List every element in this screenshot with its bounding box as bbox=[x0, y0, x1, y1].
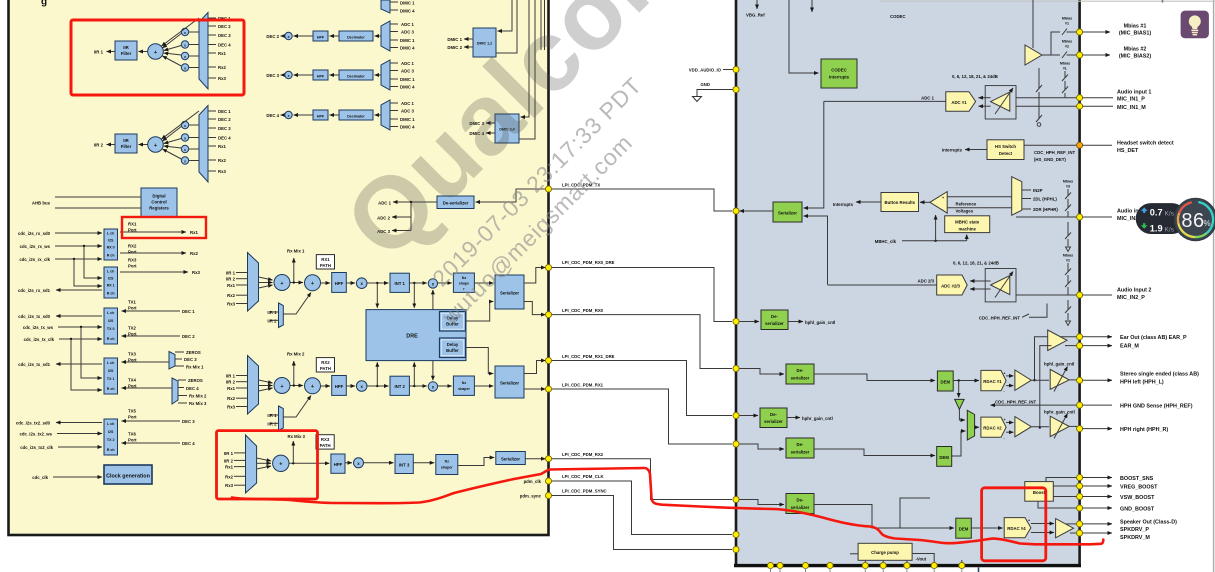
RX3 PATH tag bbox=[316, 435, 334, 449]
upload arrow icon bbox=[1141, 207, 1148, 213]
svg-text:DEC 4: DEC 4 bbox=[218, 43, 231, 48]
svg-text:Charge pump: Charge pump bbox=[871, 550, 899, 555]
svg-text:HPF: HPF bbox=[317, 35, 325, 39]
svg-text:TX3: TX3 bbox=[128, 352, 136, 357]
I2S TX2 block bbox=[104, 419, 118, 455]
wires multipliers to adder IIR1 bbox=[162, 18, 200, 66]
de-serializer hphl2 bbox=[786, 364, 814, 384]
wire LPI_CDC_PDM_RX1 bbox=[549, 389, 733, 444]
Digital Control Registers block bbox=[141, 188, 177, 217]
svg-text:IN2P: IN2P bbox=[1033, 188, 1043, 193]
svg-text:Speaker Out (Class-D): Speaker Out (Class-D) bbox=[1120, 519, 1177, 525]
svg-text:RX1: RX1 bbox=[128, 222, 137, 227]
wires RDAC1 to amp bbox=[1006, 376, 1013, 386]
mux IIR2 bbox=[199, 106, 208, 183]
svg-text:HPF: HPF bbox=[317, 74, 325, 78]
mic amp 2 enclosure bbox=[985, 269, 1016, 302]
svg-text:DEC 4: DEC 4 bbox=[218, 136, 231, 141]
svg-text:2DR (HPHR): 2DR (HPHR) bbox=[1033, 207, 1058, 212]
Mbias #2 external bbox=[1082, 54, 1110, 56]
wire to ADC2 bbox=[392, 216, 411, 218]
RxMix1 adder bbox=[274, 275, 290, 291]
svg-text:#2: #2 bbox=[1065, 45, 1069, 49]
DMIC 1,2 top wires bbox=[498, 0, 513, 31]
RxMix3 mux input labels bbox=[224, 451, 234, 488]
wire hphl amp out bbox=[1031, 379, 1049, 381]
svg-text:Control: Control bbox=[151, 200, 166, 205]
svg-text:shaper: shaper bbox=[458, 387, 470, 391]
svg-text:Rx Mix 1: Rx Mix 1 bbox=[287, 249, 305, 254]
svg-text:Mbias #2: Mbias #2 bbox=[1124, 47, 1147, 53]
bottom edge nodes bbox=[767, 562, 964, 568]
svg-text:Rx3: Rx3 bbox=[227, 405, 235, 410]
node HS_DET bbox=[1077, 142, 1083, 148]
svg-text:Decimator: Decimator bbox=[347, 114, 365, 118]
svg-text:PATH: PATH bbox=[320, 443, 331, 448]
wire node to de-serializer hphr bbox=[740, 415, 759, 417]
svg-text:TX 0: TX 0 bbox=[107, 327, 115, 331]
svg-text:Rx2: Rx2 bbox=[190, 251, 198, 256]
ADC #2/3 block bbox=[937, 275, 968, 295]
svg-text:Filter: Filter bbox=[121, 51, 132, 56]
wire DEC4 to TX6 port bbox=[122, 442, 181, 444]
svg-text:Port: Port bbox=[128, 264, 137, 269]
svg-text:DEC 2: DEC 2 bbox=[218, 117, 231, 122]
CODEC Interrupts block bbox=[821, 59, 857, 88]
sense switch column bbox=[1036, 68, 1042, 122]
svg-text:CDC_HPH_REF_INT: CDC_HPH_REF_INT bbox=[979, 315, 1020, 320]
svg-text:RX 0: RX 0 bbox=[107, 246, 115, 250]
svg-text:DEM: DEM bbox=[941, 380, 951, 385]
svg-text:#1: #1 bbox=[1065, 22, 1069, 26]
svg-text:Voltages: Voltages bbox=[956, 209, 974, 214]
serializer (codec) bbox=[773, 202, 802, 222]
svg-text:ADC 1: ADC 1 bbox=[401, 61, 415, 66]
svg-text:VREG_BOOST: VREG_BOOST bbox=[1120, 485, 1158, 491]
svg-text:Decimator: Decimator bbox=[347, 35, 365, 39]
RX1 DRE taps bbox=[377, 283, 433, 310]
AHB bus wires bbox=[55, 197, 141, 208]
RxMix2 adder bbox=[274, 378, 290, 394]
wire DEC1 to TX1 port bbox=[122, 310, 181, 312]
svg-text:#2: #2 bbox=[1066, 259, 1070, 263]
wire INT1 to mult2 bbox=[409, 282, 426, 284]
svg-text:Serializer: Serializer bbox=[500, 291, 519, 296]
svg-text:cdc_i2s_rx_sd0: cdc_i2s_rx_sd0 bbox=[18, 231, 51, 236]
svg-text:Rx1: Rx1 bbox=[190, 230, 198, 235]
svg-text:Rx1: Rx1 bbox=[227, 386, 235, 391]
overlay battery ring bbox=[1175, 199, 1215, 241]
svg-text:DEC 4: DEC 4 bbox=[266, 113, 279, 118]
svg-text:Rx3: Rx3 bbox=[218, 169, 226, 174]
RX1 mult bbox=[356, 278, 367, 289]
svg-text:Rx Mix 3: Rx Mix 3 bbox=[189, 401, 207, 406]
wire HPF to mult bbox=[346, 282, 355, 284]
branch to hphr dac bbox=[958, 381, 960, 398]
DMIC 1,2 interface block bbox=[473, 28, 496, 57]
wire hphr amp out bbox=[1031, 426, 1049, 428]
svg-text:+: + bbox=[1004, 418, 1006, 422]
tx branch wires to TX1 bbox=[71, 327, 102, 390]
wires RDAC4 to spk amp bbox=[1031, 524, 1054, 533]
MBHC comparator bbox=[930, 192, 947, 214]
RxMix3 adder bbox=[273, 455, 289, 471]
ADC #1 output wire bbox=[824, 100, 946, 102]
svg-text:INT 2: INT 2 bbox=[394, 384, 405, 389]
svg-text:ADC 3: ADC 3 bbox=[401, 69, 415, 74]
svg-text:x: x bbox=[184, 148, 186, 152]
wire RX2 port to Rx2 bbox=[120, 252, 186, 254]
SPKDRV_M wire bbox=[1070, 532, 1077, 534]
wire INT2 to mult2 bbox=[409, 385, 426, 387]
svg-text:RDAC #4: RDAC #4 bbox=[1007, 526, 1026, 531]
DMIC 3,4 top wires bbox=[521, 0, 530, 117]
svg-text:Decimator: Decimator bbox=[347, 74, 365, 78]
wire LPI_CDC_PDM_RX1_DRE bbox=[549, 361, 733, 416]
CDC_HPH_REF_INT return bbox=[991, 404, 1078, 406]
Charge pump block bbox=[858, 543, 912, 560]
speaker amp bbox=[1056, 519, 1074, 538]
svg-text:Button Results: Button Results bbox=[885, 200, 916, 205]
svg-text:cdc_i2s_tx2_clk: cdc_i2s_tx2_clk bbox=[20, 445, 53, 450]
interrupts wire (mbhc) bbox=[856, 201, 881, 203]
wires multipliers to adder IIR2 bbox=[162, 111, 200, 159]
svg-text:serializer: serializer bbox=[765, 321, 784, 326]
mic amp 2 (variable) bbox=[991, 276, 1010, 295]
wire de-serializer to ADC1 bbox=[393, 201, 437, 203]
svg-text:hphr_gain_cntl: hphr_gain_cntl bbox=[1044, 409, 1075, 414]
svg-text:Digital: Digital bbox=[152, 194, 165, 199]
svg-text:DEC 3: DEC 3 bbox=[182, 419, 195, 424]
svg-text:cdc_i2s_rx_sd1: cdc_i2s_rx_sd1 bbox=[18, 288, 51, 293]
svg-text:Port: Port bbox=[128, 250, 137, 255]
wires mux to multipliers IIR2 bbox=[189, 125, 199, 161]
wire IIR mux to adder2 bbox=[284, 293, 312, 315]
RX1 PATH tag bbox=[316, 255, 334, 269]
Audio Input 2 labels bbox=[1082, 294, 1112, 296]
comparator input wires bbox=[947, 197, 1012, 208]
wire serializer RX2 out bbox=[525, 458, 545, 460]
headset mux inputs bbox=[1022, 190, 1031, 209]
svg-text:+: + bbox=[280, 384, 283, 390]
wire filter to IIR1 bbox=[107, 51, 116, 53]
adder IIR1 bbox=[148, 44, 164, 60]
node Mbias2 bbox=[1077, 52, 1083, 58]
RX2 DRE taps bbox=[377, 361, 433, 387]
DEM3 block bbox=[937, 447, 952, 467]
RDAC #4 bbox=[1004, 518, 1031, 538]
svg-text:86: 86 bbox=[1181, 210, 1204, 232]
wire node to de-serializer spkr bbox=[740, 500, 785, 505]
ear amp bbox=[1048, 330, 1067, 351]
svg-text:LPI_CDC_PDM_RX0: LPI_CDC_PDM_RX0 bbox=[562, 308, 604, 313]
hphl var amp bbox=[1050, 369, 1069, 389]
bottom stubs below bbox=[771, 568, 962, 572]
wire to ADC3 bbox=[392, 230, 411, 232]
wire filter to IIR2 bbox=[107, 144, 116, 146]
svg-text:DEC 4: DEC 4 bbox=[182, 441, 195, 446]
svg-text:IIR 2: IIR 2 bbox=[226, 380, 236, 385]
DEC4 decimator chain bbox=[266, 100, 415, 130]
wire HPF to mult (rx2) bbox=[346, 385, 355, 387]
svg-text:DMIC 1: DMIC 1 bbox=[400, 38, 415, 43]
serializer RX0 bbox=[495, 275, 524, 309]
MIC_IN2_P wire bbox=[1016, 294, 1077, 296]
wire pdm_sync bbox=[549, 496, 733, 550]
svg-text:Rx1: Rx1 bbox=[227, 283, 235, 288]
svg-text:Rx Mix 3: Rx Mix 3 bbox=[288, 434, 306, 439]
svg-text:(MIC_BIAS2): (MIC_BIAS2) bbox=[1119, 54, 1152, 60]
svg-text:Mbias: Mbias bbox=[1063, 254, 1073, 258]
interrupts wire (hs) bbox=[965, 149, 987, 151]
DRE block bbox=[366, 310, 466, 361]
wire DEM1 to RDAC1 bbox=[953, 380, 979, 382]
DEM1 block bbox=[937, 371, 953, 391]
svg-text:DMIC 2: DMIC 2 bbox=[447, 45, 462, 50]
wire mult to INT3 bbox=[364, 462, 394, 464]
VBG_Ref input arrow bbox=[756, 0, 758, 9]
wire adder2 to HPF bbox=[321, 282, 331, 284]
svg-text:x: x bbox=[288, 114, 290, 118]
svg-text:serializer: serializer bbox=[764, 419, 783, 424]
svg-text:Mbias: Mbias bbox=[1062, 40, 1072, 44]
blue-edge nodes bbox=[733, 208, 739, 553]
svg-text:BOOST_SNS: BOOST_SNS bbox=[1120, 476, 1154, 482]
wire mult2 to Nz (rx2) bbox=[438, 385, 452, 387]
Mbias buffer amp bbox=[1025, 45, 1042, 65]
mux IIR1 input wires bbox=[208, 18, 216, 78]
de-serializer (ADC bus) bbox=[437, 196, 474, 209]
svg-text:Mbias: Mbias bbox=[1063, 180, 1073, 184]
svg-text:SPKDRV_M: SPKDRV_M bbox=[1120, 535, 1150, 541]
svg-text:Rx2: Rx2 bbox=[218, 65, 226, 70]
svg-text:Nz: Nz bbox=[445, 460, 450, 464]
svg-text:ZEROS: ZEROS bbox=[188, 378, 203, 383]
annotation rect RDAC4 bbox=[982, 488, 1046, 561]
svg-text:HPH right (HPH_R): HPH right (HPH_R) bbox=[1120, 427, 1168, 433]
RX1 second adder bbox=[305, 275, 321, 291]
svg-text:cdc_i2s_tx2_sd0: cdc_i2s_tx2_sd0 bbox=[16, 421, 51, 426]
RxMix1 mux input labels bbox=[226, 271, 236, 307]
hphr mux bbox=[967, 410, 974, 440]
svg-text:Port: Port bbox=[128, 415, 137, 420]
DEC1 mux input wires bbox=[390, 2, 398, 10]
svg-text:RX1: RX1 bbox=[321, 257, 330, 262]
svg-text:PATH: PATH bbox=[320, 263, 331, 268]
svg-text:Ear Out (class AB) EAR_P: Ear Out (class AB) EAR_P bbox=[1120, 335, 1187, 341]
svg-text:L ch: L ch bbox=[107, 232, 114, 236]
wires RDAC2 to amp bbox=[1006, 423, 1013, 433]
svg-text:Rx1: Rx1 bbox=[225, 465, 233, 470]
svg-text:DMIC 1: DMIC 1 bbox=[447, 37, 462, 42]
download arrow icon bbox=[1141, 223, 1148, 229]
RxMix2 output arrow bbox=[293, 361, 295, 386]
digital codec region (yellow) bbox=[9, 0, 549, 535]
ground symbol bbox=[693, 97, 702, 102]
svg-text:Rx3: Rx3 bbox=[192, 270, 200, 275]
ADC2/3 bus up to serializer bbox=[804, 216, 828, 285]
svg-text:serializer: serializer bbox=[791, 505, 810, 510]
Mbias #1 external bbox=[1082, 31, 1110, 33]
HS Switch Detect block bbox=[987, 140, 1024, 160]
multipliers IIR2 bbox=[181, 121, 188, 164]
RxMix2 input mux bbox=[248, 356, 259, 415]
svg-text:IIR: IIR bbox=[123, 45, 129, 50]
I2S RX1 block bbox=[104, 267, 118, 298]
svg-text:ADC #2/3: ADC #2/3 bbox=[941, 283, 960, 288]
wire de-serializer4 to DEM3 bbox=[814, 449, 935, 456]
svg-text:Rx Mix 2: Rx Mix 2 bbox=[189, 394, 207, 399]
svg-text:GND_BOOST: GND_BOOST bbox=[1120, 507, 1155, 513]
Audio input labels (covered by overlay) bbox=[1082, 216, 1112, 218]
RDAC #2 bbox=[981, 417, 1006, 437]
RxMix2 mux input wires bbox=[236, 376, 248, 407]
Audio input 1 labels bbox=[1082, 97, 1113, 99]
svg-text:DMIC 4: DMIC 4 bbox=[400, 85, 415, 90]
VSW_BOOST wire bbox=[1053, 496, 1077, 498]
top input arrow 2 bbox=[811, 0, 813, 12]
svg-text:DEC 3: DEC 3 bbox=[266, 73, 279, 78]
svg-text:IIR 2: IIR 2 bbox=[94, 143, 104, 148]
svg-text:HPF: HPF bbox=[335, 384, 344, 389]
svg-text:Boost: Boost bbox=[1033, 490, 1046, 495]
svg-text:ADC 2/3: ADC 2/3 bbox=[918, 278, 935, 283]
svg-text:R ch: R ch bbox=[107, 448, 115, 452]
svg-text:cdc_i2s_tx_clk: cdc_i2s_tx_clk bbox=[24, 337, 55, 342]
svg-text:CODEC: CODEC bbox=[831, 68, 847, 73]
svg-text:Audio Input 2: Audio Input 2 bbox=[1117, 288, 1151, 294]
svg-text:+: + bbox=[942, 196, 944, 200]
svg-text:(MIC_BIAS1): (MIC_BIAS1) bbox=[1119, 31, 1152, 37]
window edge top bbox=[880, 0, 1215, 2]
svg-text:RX2: RX2 bbox=[321, 360, 330, 365]
mux IIR1 input labels bbox=[218, 16, 231, 81]
annotation rect IIR1 bbox=[71, 20, 244, 95]
svg-text:IIR 1: IIR 1 bbox=[226, 374, 236, 379]
wire serializer RX1 out bbox=[524, 388, 546, 390]
svg-text:x: x bbox=[184, 136, 186, 140]
wire PDM TX to de-serializer bbox=[476, 189, 549, 202]
svg-text:Rx1: Rx1 bbox=[218, 51, 226, 56]
wire LPI_CDC_PDM_RX0 bbox=[549, 315, 733, 369]
RX2 IIR select mux bbox=[279, 406, 284, 431]
svg-text:LPI_CDC_PDM_SYNC: LPI_CDC_PDM_SYNC bbox=[562, 489, 607, 494]
Mbias #2 switch bbox=[1051, 52, 1077, 59]
svg-text:DEM: DEM bbox=[959, 527, 969, 532]
svg-text:cdc_i2s_rx_ws: cdc_i2s_rx_ws bbox=[20, 244, 51, 249]
node MIC_IN2 bbox=[1077, 214, 1083, 220]
svg-text:GND: GND bbox=[700, 82, 710, 87]
wire delay buffer2 to serializer RX1 bbox=[466, 348, 494, 374]
svg-text:ZEROS: ZEROS bbox=[186, 350, 201, 355]
wire DEM3 to hphr mux bbox=[952, 431, 966, 456]
RX3 HPF bbox=[331, 454, 345, 473]
svg-text:L ch: L ch bbox=[107, 270, 114, 274]
wire adder3 to HPF bbox=[289, 462, 329, 464]
svg-text:R ch: R ch bbox=[107, 292, 115, 296]
svg-text:De-: De- bbox=[770, 412, 777, 417]
svg-text:DEC 4: DEC 4 bbox=[186, 386, 199, 391]
svg-text:ADC 1: ADC 1 bbox=[401, 101, 415, 106]
svg-text:x: x bbox=[184, 31, 186, 35]
svg-text:R ch: R ch bbox=[107, 254, 115, 258]
svg-text:serializer: serializer bbox=[791, 376, 810, 381]
svg-text:Mbias #1: Mbias #1 bbox=[1124, 24, 1147, 30]
svg-text:Registers: Registers bbox=[149, 206, 169, 211]
rx ws/clk junctions bbox=[83, 245, 85, 247]
hphr var amp bbox=[1050, 416, 1069, 436]
serializer RX1 bbox=[495, 366, 524, 398]
svg-text:K/s: K/s bbox=[1165, 226, 1175, 233]
wire DEM2 to RDAC4 bbox=[971, 527, 1002, 529]
svg-text:Detect: Detect bbox=[999, 151, 1013, 156]
svg-text:%: % bbox=[1204, 219, 1211, 228]
wire adder1 to adder2 bbox=[290, 282, 303, 284]
node MIC_IN1_P bbox=[1077, 95, 1083, 101]
RX2 second adder bbox=[305, 378, 321, 394]
wires amp to ADC1 bbox=[979, 98, 991, 107]
RxMix1 tap junction bbox=[293, 281, 295, 283]
wire mult to INT2 bbox=[367, 385, 389, 387]
svg-text:-Vout: -Vout bbox=[916, 557, 927, 562]
MIC_IN1_P wire bbox=[1016, 97, 1077, 99]
svg-text:RDAC #1: RDAC #1 bbox=[983, 379, 1002, 384]
svg-text:VSW_BOOST: VSW_BOOST bbox=[1120, 495, 1155, 501]
annotation rect RX1 Port bbox=[122, 217, 206, 238]
svg-text:CDC_HPH_REF_INT: CDC_HPH_REF_INT bbox=[995, 399, 1036, 404]
wire DEC3 to TX5 port bbox=[122, 420, 181, 422]
Delay Buffer 1 bbox=[440, 312, 466, 332]
yellow-edge nodes bbox=[545, 186, 551, 499]
annotation rect RxMix3 bbox=[217, 431, 318, 499]
mux IIR2 input wires bbox=[208, 111, 216, 171]
adder IIR2 bbox=[148, 137, 164, 153]
svg-text:TX2: TX2 bbox=[128, 326, 136, 331]
svg-text:ADC 1: ADC 1 bbox=[401, 22, 415, 27]
rx branch wires to RX1 bbox=[74, 246, 102, 286]
svg-text:IIR 2: IIR 2 bbox=[226, 277, 236, 282]
I2S TX0 block bbox=[104, 308, 118, 344]
wire mux3 to TX3 port bbox=[122, 361, 170, 363]
svg-text:Rx2: Rx2 bbox=[218, 158, 226, 163]
svg-text:Rx2: Rx2 bbox=[227, 396, 235, 401]
svg-text:MIC_IN2: MIC_IN2 bbox=[1117, 216, 1138, 222]
svg-text:MBHC_clk: MBHC_clk bbox=[875, 239, 897, 244]
RX2 INT2 bbox=[390, 376, 409, 395]
svg-text:Port: Port bbox=[128, 306, 137, 311]
svg-text:RX3: RX3 bbox=[128, 258, 137, 263]
RX2 PATH tag bbox=[316, 358, 334, 372]
svg-text:LPI_CDC_PDM_RX1: LPI_CDC_PDM_RX1 bbox=[562, 383, 604, 388]
svg-text:0, 6, 12, 18, 21, & 24dB: 0, 6, 12, 18, 21, & 24dB bbox=[952, 74, 998, 79]
DMIC2 wire bbox=[464, 46, 473, 48]
svg-text:x: x bbox=[184, 43, 186, 47]
svg-text:L ch: L ch bbox=[107, 311, 114, 315]
svg-text:Interrupts: Interrupts bbox=[829, 75, 850, 80]
overlay speed pill bbox=[1136, 203, 1187, 234]
svg-text:LPI_CDC_PDM_RX1_DRE: LPI_CDC_PDM_RX1_DRE bbox=[562, 354, 615, 359]
wire node to de-serializer hphl2 bbox=[740, 369, 785, 375]
mic amp 1 enclosure bbox=[985, 86, 1016, 119]
RX3 mult bbox=[354, 458, 364, 468]
svg-text:Audio input 1: Audio input 1 bbox=[1117, 90, 1151, 96]
svg-text:ADC 1: ADC 1 bbox=[921, 95, 935, 100]
Button Results block bbox=[881, 193, 919, 212]
RX1 Nz shaper bbox=[453, 273, 474, 292]
svg-text:I2S: I2S bbox=[108, 430, 114, 434]
wire mux4 to TX4 port bbox=[122, 387, 173, 389]
svg-text:HPH left (HPH_L): HPH left (HPH_L) bbox=[1120, 379, 1164, 385]
